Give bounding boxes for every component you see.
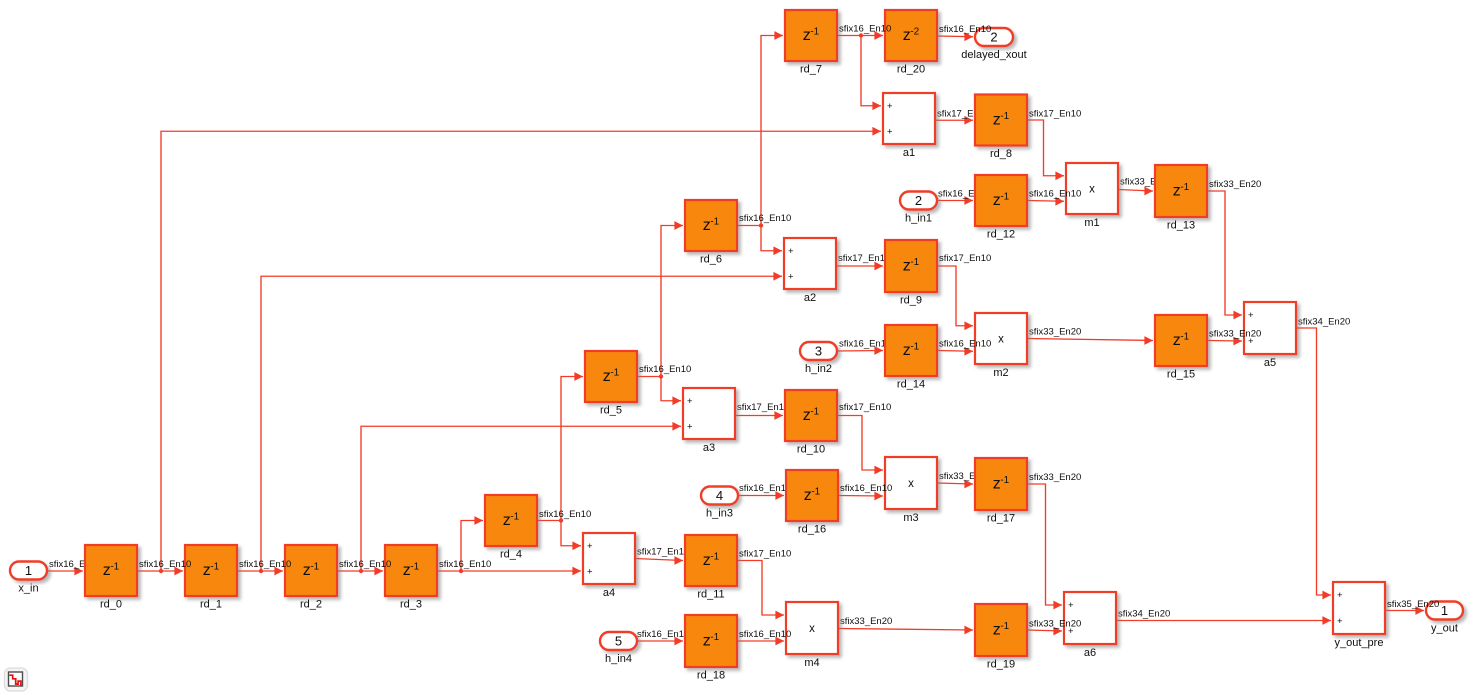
wire rd_11 -> m4 first input	[737, 561, 784, 620]
svg-text:+: +	[687, 396, 693, 407]
svg-text:-1: -1	[1000, 621, 1009, 632]
svg-text:+: +	[1248, 310, 1254, 321]
wire rd_18 -> m4 second input	[737, 637, 784, 646]
svg-text:-1: -1	[811, 487, 820, 498]
input port h_in1	[900, 192, 937, 225]
label sfix33_En20 on m1 out	[1120, 177, 1172, 188]
svg-text:sfix34_En20: sfix34_En20	[1298, 317, 1350, 328]
label sfix17_En10 on rd_11 out	[739, 549, 791, 560]
svg-text:+: +	[1337, 590, 1343, 601]
svg-text:h_in4: h_in4	[605, 653, 632, 665]
wire branch up to rd_4 input	[461, 516, 483, 571]
wire rd_9 -> m2 first input	[937, 266, 973, 330]
wire rd_7 -> rd_20 with junction	[837, 31, 883, 40]
svg-text:sfix16_En10: sfix16_En10	[439, 559, 491, 570]
label sfix16_En10 on rd_3 out	[439, 559, 491, 570]
svg-text:x: x	[998, 333, 1004, 345]
label sfix16_En10 on rd_0 out	[139, 559, 191, 570]
unit delay rd_7	[785, 10, 837, 76]
adder a5	[1244, 302, 1296, 369]
input port h_in4	[600, 632, 637, 665]
wire tap2 branch up to a2 second input	[261, 272, 782, 571]
label sfix33_En20 on rd_13 out	[1209, 179, 1261, 190]
svg-text:sfix16_En10: sfix16_En10	[639, 364, 691, 375]
label sfix34_En20 on a5 out	[1298, 317, 1350, 328]
svg-text:-1: -1	[210, 562, 219, 573]
wire rd_14 -> m2 second input	[937, 347, 973, 356]
svg-text:sfix16_En10: sfix16_En10	[539, 509, 591, 520]
svg-text:-1: -1	[710, 632, 719, 643]
label sfix17_En10 on rd_10 out	[839, 402, 891, 413]
label sfix16_En10 on rd_5 out	[639, 364, 691, 375]
label sfix17_En10 on a4 out	[637, 547, 689, 558]
svg-text:-1: -1	[810, 27, 819, 38]
svg-text:sfix34_En20: sfix34_En20	[1118, 609, 1170, 620]
svg-text:sfix33_En20: sfix33_En20	[1029, 619, 1081, 630]
svg-text:1: 1	[1441, 603, 1448, 618]
label sfix16_En10 on rd_12 out	[1029, 189, 1081, 200]
label sfix17_En10 on a2 out	[838, 253, 890, 264]
svg-text:a4: a4	[603, 587, 615, 599]
svg-text:rd_14: rd_14	[897, 379, 925, 391]
wire rd_0 -> rd_1 with branch junction	[137, 567, 183, 576]
label sfix16_En10 on rd_7 out	[839, 24, 891, 35]
wire junction -> a3 first input	[661, 377, 681, 406]
label sfix16_En10 on rd_14 out	[939, 339, 991, 350]
svg-text:-2: -2	[910, 27, 919, 38]
label sfix16_En10 on rd_2 out	[339, 559, 391, 570]
unit delay rd_9	[885, 240, 937, 307]
svg-text:rd_19: rd_19	[987, 659, 1015, 671]
svg-text:y_out_pre: y_out_pre	[1335, 637, 1384, 649]
wire m3 -> rd_17	[937, 480, 973, 489]
svg-text:sfix16_En10: sfix16_En10	[139, 559, 191, 570]
unit delay rd_1	[185, 545, 237, 611]
svg-text:+: +	[788, 246, 794, 257]
wire junction -> a2 first input	[761, 226, 782, 256]
label sfix16_En10 on x_in out	[49, 559, 101, 570]
wire a5 -> y_out_pre first input	[1296, 328, 1331, 599]
adder a1	[883, 93, 935, 159]
svg-text:2: 2	[990, 30, 997, 45]
adder y_out_pre	[1333, 582, 1385, 649]
unit delay rd_5	[585, 351, 637, 417]
svg-text:rd_17: rd_17	[987, 513, 1015, 525]
svg-text:h_in3: h_in3	[706, 508, 733, 520]
wire rd_8 -> m1 first input	[1027, 120, 1064, 180]
svg-text:rd_15: rd_15	[1167, 369, 1195, 381]
unit delay rd_17	[975, 458, 1027, 525]
label sfix17_En10 on rd_9 out	[939, 253, 991, 264]
unit delay rd_2	[285, 545, 337, 611]
svg-text:sfix16_En10: sfix16_En10	[637, 629, 689, 640]
svg-text:-1: -1	[710, 552, 719, 563]
svg-text:-1: -1	[1000, 192, 1009, 203]
label sfix16_En10 on h_in1 out	[938, 189, 990, 200]
svg-text:sfix16_En10: sfix16_En10	[239, 559, 291, 570]
svg-text:a2: a2	[804, 292, 816, 304]
svg-text:m2: m2	[993, 367, 1008, 379]
svg-text:sfix16_En10: sfix16_En10	[1029, 189, 1081, 200]
svg-text:rd_18: rd_18	[697, 670, 725, 682]
wire rd_4 -> rd_5 via junction	[537, 372, 583, 523]
sample time legend badge	[5, 668, 28, 691]
input port x_in	[10, 562, 47, 595]
svg-text:rd_5: rd_5	[600, 405, 622, 417]
svg-text:-1: -1	[810, 407, 819, 418]
svg-text:-1: -1	[510, 512, 519, 523]
label sfix16_En10 on rd_4 out	[539, 509, 591, 520]
svg-text:sfix17_En10: sfix17_En10	[637, 547, 689, 558]
svg-text:sfix17_En10: sfix17_En10	[838, 253, 890, 264]
unit delay rd_4	[485, 495, 537, 561]
svg-text:rd_9: rd_9	[900, 295, 922, 307]
svg-text:h_in1: h_in1	[905, 213, 932, 225]
unit delay rd_6	[685, 200, 737, 266]
wire rd_10 -> m3 first input	[837, 416, 883, 475]
label sfix17_En10 on a1 out	[937, 108, 989, 119]
wire x_in -> rd_0	[47, 567, 83, 576]
label sfix17_En10 on rd_8 out	[1029, 108, 1081, 119]
wire y_out_pre -> y_out	[1385, 606, 1424, 615]
svg-text:sfix17_En10: sfix17_En10	[839, 402, 891, 413]
svg-text:rd_12: rd_12	[987, 229, 1015, 241]
wire rd_1 -> rd_2 with branch junction	[237, 567, 283, 576]
svg-text:rd_1: rd_1	[200, 599, 222, 611]
label sfix33_En20 on m2 out	[1029, 327, 1081, 338]
svg-text:sfix33_En20: sfix33_En20	[1209, 179, 1261, 190]
wire junction -> a1 first input	[861, 36, 881, 111]
output port delayed_xout	[961, 28, 1026, 61]
wire rd_13 -> a5 first input	[1207, 191, 1242, 319]
wire m1 -> rd_13	[1118, 187, 1153, 196]
svg-text:sfix33_En20: sfix33_En20	[840, 616, 892, 627]
svg-text:+: +	[687, 421, 693, 432]
svg-text:sfix35_En20: sfix35_En20	[1387, 599, 1439, 610]
wire h_in4 -> rd_18	[637, 637, 683, 646]
svg-text:sfix16_En10: sfix16_En10	[939, 339, 991, 350]
wire h_in2 -> rd_14	[837, 346, 883, 355]
unit delay rd_15	[1155, 315, 1207, 381]
wire rd_15 -> a5 second input	[1207, 337, 1242, 346]
label sfix35_En20 on y_out_pre out (over y_out)	[1387, 599, 1439, 610]
svg-text:sfix17_En10: sfix17_En10	[739, 549, 791, 560]
svg-text:-1: -1	[710, 217, 719, 228]
svg-text:sfix17_En10: sfix17_En10	[939, 253, 991, 264]
svg-text:-1: -1	[1000, 475, 1009, 486]
svg-text:rd_4: rd_4	[500, 549, 522, 561]
svg-text:a3: a3	[703, 442, 715, 454]
wire rd_19 -> a6 second input	[1027, 627, 1062, 636]
svg-text:4: 4	[716, 488, 723, 503]
svg-text:rd_13: rd_13	[1167, 220, 1195, 232]
svg-text:rd_11: rd_11	[697, 589, 724, 601]
svg-text:rd_8: rd_8	[990, 148, 1012, 160]
svg-text:3: 3	[815, 344, 822, 359]
unit delay rd_12	[975, 175, 1027, 241]
svg-text:sfix33_En20: sfix33_En20	[1209, 329, 1261, 340]
svg-text:x: x	[908, 478, 914, 490]
svg-text:sfix17_En10: sfix17_En10	[1029, 108, 1081, 119]
unit delay rd_14	[885, 325, 937, 391]
wire junction -> a4 first input	[561, 521, 581, 551]
svg-text:rd_3: rd_3	[400, 599, 422, 611]
label sfix34_En20 on a6 out	[1118, 609, 1170, 620]
unit delay rd_10	[785, 390, 837, 456]
svg-text:x_in: x_in	[18, 583, 38, 595]
wire a4 -> rd_11	[635, 556, 683, 565]
svg-text:+: +	[587, 541, 593, 552]
adder a4	[583, 533, 635, 599]
svg-text:-1: -1	[310, 562, 319, 573]
label sfix16_En10 on rd_6 out	[739, 213, 791, 224]
label sfix33_En20 on rd_17 out	[1029, 472, 1081, 483]
unit delay rd_19	[975, 604, 1027, 671]
svg-text:y_out: y_out	[1431, 623, 1458, 635]
svg-text:rd_16: rd_16	[798, 524, 826, 536]
wire rd_6 -> rd_7 via junction	[737, 31, 783, 228]
wire rd_2 -> rd_3 with branch junction	[337, 567, 383, 576]
unit delay rd_0	[85, 545, 137, 611]
multiplier m1	[1066, 163, 1118, 229]
svg-text:5: 5	[615, 634, 622, 649]
wire rd_12 -> m1 second input	[1027, 197, 1064, 206]
svg-text:-1: -1	[1180, 332, 1189, 343]
label sfix33_En20 on m4 out	[840, 616, 892, 627]
unit delay rd_8	[975, 95, 1027, 161]
svg-text:-1: -1	[910, 257, 919, 268]
svg-text:sfix33_En20: sfix33_En20	[1029, 327, 1081, 338]
svg-text:a6: a6	[1084, 647, 1096, 659]
unit delay rd_18	[685, 615, 737, 682]
wire tap1 branch up to a1 second input	[161, 127, 881, 571]
svg-text:rd_6: rd_6	[700, 254, 722, 266]
label sfix17_En10 on a3 out	[737, 402, 789, 413]
label sfix16_En10 on rd_20 out (over delayed_xout)	[939, 24, 991, 35]
svg-text:+: +	[788, 271, 794, 282]
input port h_in3	[701, 487, 738, 520]
svg-text:m1: m1	[1084, 217, 1099, 229]
svg-text:1: 1	[25, 563, 32, 578]
svg-text:sfix16_En10: sfix16_En10	[939, 24, 991, 35]
svg-text:rd_2: rd_2	[300, 599, 322, 611]
svg-text:m4: m4	[804, 657, 819, 669]
svg-text:rd_20: rd_20	[897, 64, 925, 76]
label sfix16_En10 on h_in4 out	[637, 629, 689, 640]
adder a3	[683, 388, 735, 454]
svg-text:-1: -1	[110, 562, 119, 573]
svg-text:sfix16_En10: sfix16_En10	[739, 483, 791, 494]
svg-text:-1: -1	[410, 562, 419, 573]
adder a6	[1064, 592, 1116, 659]
label sfix16_En10 on h_in3 out	[739, 483, 791, 494]
label sfix16_En10 on h_in2 out	[839, 339, 891, 350]
svg-text:sfix16_En10: sfix16_En10	[840, 483, 892, 494]
svg-text:-1: -1	[1000, 111, 1009, 122]
wire m4 -> rd_19	[838, 626, 973, 635]
svg-text:a1: a1	[903, 147, 915, 159]
svg-text:sfix16_En10: sfix16_En10	[339, 559, 391, 570]
unit delay rd_11	[685, 535, 737, 601]
wire rd_17 -> a6 first input	[1027, 484, 1062, 609]
unit delay rd_3	[385, 545, 437, 611]
input port h_in2	[800, 342, 837, 375]
wire tap3 branch up to a3 second input	[361, 422, 681, 571]
multiplier m2	[975, 313, 1027, 379]
svg-text:sfix16_En10: sfix16_En10	[739, 629, 791, 640]
svg-text:rd_0: rd_0	[100, 599, 122, 611]
svg-text:sfix16_En10: sfix16_En10	[839, 24, 891, 35]
wire a2 -> rd_9	[836, 262, 883, 271]
wire rd_20 -> delayed_xout	[937, 32, 973, 41]
output port y_out	[1426, 602, 1463, 635]
svg-text:+: +	[887, 101, 893, 112]
unit delay rd_16	[786, 470, 838, 536]
svg-text:x: x	[1089, 183, 1095, 195]
svg-text:x: x	[809, 623, 815, 635]
wire rd_16 -> m3 second input	[838, 492, 883, 501]
wire rd_3 -> a4 second input with branch junction	[437, 567, 581, 576]
wire h_in1 -> rd_12	[937, 196, 973, 205]
svg-text:+: +	[1337, 616, 1343, 627]
svg-text:2: 2	[915, 193, 922, 208]
svg-text:sfix17_En10: sfix17_En10	[737, 402, 789, 413]
svg-text:+: +	[887, 126, 893, 137]
label sfix16_En10 on rd_18 out	[739, 629, 791, 640]
wire rd_5 -> rd_6 via junction	[637, 221, 683, 379]
wire a1 -> rd_8	[935, 116, 973, 125]
label sfix16_En10 on rd_16 out	[840, 483, 892, 494]
svg-text:sfix33_En20: sfix33_En20	[1029, 472, 1081, 483]
wire h_in3 -> rd_16	[738, 491, 784, 500]
svg-text:h_in2: h_in2	[805, 363, 832, 375]
svg-text:rd_7: rd_7	[800, 64, 822, 76]
multiplier m4	[786, 602, 838, 669]
svg-text:sfix16_En10: sfix16_En10	[839, 339, 891, 350]
svg-text:rd_10: rd_10	[797, 444, 825, 456]
svg-text:-1: -1	[910, 342, 919, 353]
wire a3 -> rd_10	[735, 411, 783, 420]
unit delay rd_13	[1155, 165, 1207, 232]
svg-text:+: +	[587, 566, 593, 577]
adder a2	[784, 238, 836, 304]
wire m2 -> rd_15	[1027, 336, 1153, 345]
label sfix33_En20 on rd_15 out (over a5)	[1209, 329, 1261, 340]
unit delay rd_20	[885, 10, 937, 76]
label sfix16_En10 on rd_1 out	[239, 559, 291, 570]
svg-text:-1: -1	[610, 368, 619, 379]
label sfix33_En20 on m3 out	[939, 471, 991, 482]
svg-text:sfix16_En10: sfix16_En10	[739, 213, 791, 224]
multiplier m3	[885, 457, 937, 524]
wire a6 -> y_out_pre second input	[1116, 616, 1331, 625]
svg-text:-1: -1	[1180, 182, 1189, 193]
svg-text:+: +	[1068, 600, 1074, 611]
svg-text:delayed_xout: delayed_xout	[961, 49, 1026, 61]
label sfix33_En20 on rd_19 out (over a6)	[1029, 619, 1081, 630]
svg-text:m3: m3	[903, 512, 918, 524]
svg-text:a5: a5	[1264, 357, 1276, 369]
